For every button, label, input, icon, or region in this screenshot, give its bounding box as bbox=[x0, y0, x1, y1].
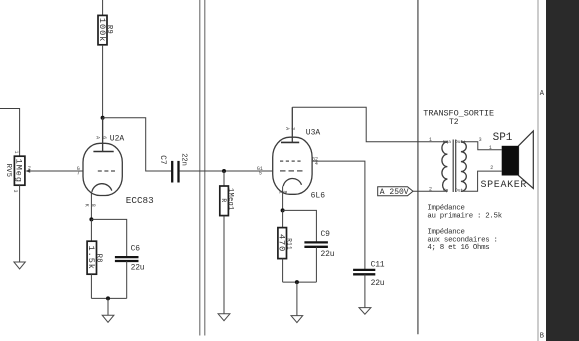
wire cathode 6L6 bbox=[282, 186, 284, 210]
wire cathode U2A bbox=[90, 192, 92, 220]
ground under R8 C6 bbox=[102, 315, 114, 322]
ground under C11 bbox=[359, 308, 371, 315]
wire C9 bottom bbox=[315, 247, 317, 282]
pin G1 5 U3A bbox=[257, 166, 263, 177]
wire cathode to C9 bbox=[283, 210, 317, 242]
svg-text:A 250V: A 250V bbox=[380, 188, 409, 197]
wire R8 bottom bbox=[90, 274, 92, 298]
svg-text:22u: 22u bbox=[371, 279, 385, 288]
resistor R8 1.5k bbox=[86, 241, 102, 274]
svg-text:A: A bbox=[94, 136, 100, 139]
wire R11 bottom bbox=[282, 259, 284, 283]
capacitor C9 bbox=[304, 230, 334, 259]
svg-text:1Meg: 1Meg bbox=[14, 159, 24, 183]
wire T2 secondary to speaker pin1 bbox=[461, 142, 502, 150]
svg-text:C6: C6 bbox=[131, 245, 141, 254]
note impedance primaire bbox=[427, 204, 502, 220]
wire bottom rail R8 C6 bbox=[91, 297, 126, 299]
wire R1 to ground bbox=[223, 216, 225, 314]
svg-text:22n: 22n bbox=[179, 153, 187, 166]
svg-text:SPEAKER: SPEAKER bbox=[481, 180, 528, 191]
pentode U3A bbox=[273, 107, 312, 194]
wire cathode to C6 bbox=[91, 219, 126, 257]
pin A3 U3A bbox=[284, 127, 296, 130]
svg-text:Hp: Hp bbox=[443, 188, 449, 194]
node bottom rail bbox=[106, 296, 110, 300]
wire to ground 6L6 stage bbox=[296, 282, 298, 316]
wire bottom rail R11 C9 bbox=[283, 281, 317, 283]
node cathode 6L6 bbox=[281, 208, 285, 212]
transformer T2 bbox=[423, 108, 494, 192]
svg-text:Out-: Out- bbox=[455, 188, 466, 194]
svg-text:R11: R11 bbox=[285, 238, 292, 250]
svg-text:B: B bbox=[540, 333, 544, 341]
ground under RV5 bbox=[14, 262, 25, 269]
pin A6 U2A bbox=[94, 136, 107, 139]
primary winding bbox=[442, 142, 448, 192]
node grid junction bbox=[222, 169, 226, 173]
wire to ground left stage bbox=[107, 298, 109, 315]
potentiometer RV5 bbox=[4, 156, 25, 185]
svg-text:22u: 22u bbox=[321, 250, 335, 259]
wire R9 to U2A plate bbox=[102, 45, 104, 152]
svg-text:3: 3 bbox=[12, 189, 18, 192]
note impedance secondaires bbox=[427, 228, 497, 252]
pin G2 4 U3A bbox=[312, 156, 318, 167]
svg-text:5: 5 bbox=[259, 171, 262, 177]
capacitor C6 bbox=[115, 245, 145, 273]
svg-text:TRANSFO_SORTIE: TRANSFO_SORTIE bbox=[423, 108, 494, 118]
svg-text:Impédance: Impédance bbox=[427, 204, 464, 212]
svg-text:Impédance: Impédance bbox=[427, 228, 464, 236]
wire RV5 bottom bbox=[19, 185, 21, 262]
wire top feed R9 bbox=[102, 0, 104, 15]
secondary winding bbox=[461, 142, 466, 192]
svg-text:3: 3 bbox=[479, 137, 482, 143]
svg-text:2: 2 bbox=[490, 165, 493, 171]
svg-text:C9: C9 bbox=[321, 230, 331, 239]
speaker SP1 bbox=[502, 131, 534, 188]
svg-text:SP1: SP1 bbox=[493, 132, 513, 144]
wire cathode to R8 bbox=[90, 219, 92, 241]
ground under R11 C9 bbox=[291, 316, 303, 323]
svg-text:4: 4 bbox=[315, 161, 318, 167]
svg-text:K: K bbox=[84, 204, 90, 207]
svg-text:au primaire : 2.5k: au primaire : 2.5k bbox=[427, 213, 502, 221]
global label A 250V bbox=[378, 187, 413, 197]
svg-text:470: 470 bbox=[277, 234, 287, 252]
pin K8 U2A bbox=[84, 204, 97, 207]
capacitor C7 22n bbox=[158, 153, 187, 182]
svg-text:R: R bbox=[220, 198, 227, 202]
core bbox=[453, 140, 456, 193]
wire junction to R1 bbox=[223, 171, 225, 186]
svg-text:6: 6 bbox=[101, 136, 107, 139]
svg-text:1Meg1: 1Meg1 bbox=[226, 188, 234, 211]
svg-text:7: 7 bbox=[77, 170, 80, 176]
svg-text:2: 2 bbox=[429, 186, 432, 192]
wire C7 to 6L6 grid bbox=[180, 170, 273, 172]
svg-text:ECC83: ECC83 bbox=[126, 195, 154, 206]
wiper arrow RV5 bbox=[25, 169, 30, 173]
wire wiper to U2A grid bbox=[29, 170, 83, 172]
wire input left bbox=[0, 109, 20, 157]
wire 6L6 plate to transformer pin1 bbox=[292, 107, 447, 142]
resistor R11 470 bbox=[277, 228, 293, 259]
svg-text:1: 1 bbox=[429, 137, 432, 143]
wire cathode to R11 bbox=[282, 210, 284, 227]
svg-text:6L6: 6L6 bbox=[311, 191, 326, 200]
svg-text:1: 1 bbox=[13, 150, 19, 153]
capacitor C11 bbox=[353, 261, 385, 289]
svg-text:4; 8 et 16 Ohms: 4; 8 et 16 Ohms bbox=[427, 244, 489, 252]
svg-text:RV5: RV5 bbox=[4, 164, 12, 178]
svg-text:C11: C11 bbox=[371, 261, 385, 270]
ground under R1 bbox=[218, 314, 230, 321]
triode U2A bbox=[83, 118, 122, 196]
svg-text:A: A bbox=[284, 127, 290, 130]
svg-text:22u: 22u bbox=[131, 264, 145, 273]
pin K8 U3A bbox=[277, 190, 288, 193]
resistor R1 1Meg bbox=[220, 186, 234, 216]
svg-text:T2: T2 bbox=[449, 118, 459, 127]
node cathode U2A bbox=[89, 217, 93, 221]
svg-text:R8: R8 bbox=[95, 254, 103, 263]
resistor R9 100k bbox=[97, 15, 113, 44]
wire label to transformer pin2 bbox=[413, 190, 447, 192]
wire plate node to C7 bbox=[103, 118, 172, 171]
wire C6 bottom bbox=[126, 261, 128, 298]
pin G7 U2A bbox=[77, 166, 80, 177]
svg-text:3: 3 bbox=[290, 127, 296, 130]
svg-text:U3A: U3A bbox=[306, 129, 321, 138]
svg-text:U2A: U2A bbox=[110, 134, 125, 143]
wire G2 to C11 bbox=[312, 161, 365, 270]
svg-text:Hqa: Hqa bbox=[443, 139, 451, 145]
svg-text:1: 1 bbox=[489, 145, 492, 151]
node bottom rail 6L6 bbox=[295, 280, 299, 284]
node plate U2A bbox=[101, 116, 105, 120]
svg-text:R9: R9 bbox=[105, 25, 113, 34]
wire C11 to ground bbox=[364, 274, 366, 307]
wire T2 secondary bottom to speaker pin2 bbox=[461, 171, 502, 191]
svg-text:C7: C7 bbox=[158, 155, 167, 165]
